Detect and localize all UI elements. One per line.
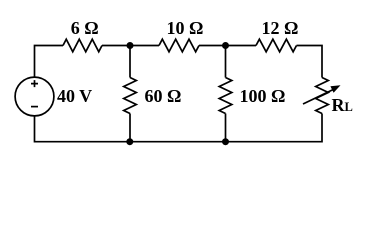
voltage source minus sign: [31, 106, 38, 108]
svg-text:100 Ω: 100 Ω: [240, 86, 286, 106]
node B bottom junction dot: [222, 138, 229, 145]
node A junction dot: [127, 42, 134, 49]
node A bottom junction dot: [126, 138, 133, 145]
wire top rail between 10 ohm and 12 ohm: [199, 45, 256, 47]
resistor 10 ohm: [159, 39, 199, 52]
wire left branch bottom: [35, 116, 130, 142]
variable resistor RL zigzag: [316, 78, 329, 114]
variable resistor RL arrow line: [303, 90, 333, 104]
resistor 12 ohm: [256, 39, 297, 52]
voltage source plus sign: [31, 80, 38, 87]
voltage source 40 V circle: [15, 77, 54, 116]
resistor 6 ohm: [63, 39, 102, 52]
resistor 60 ohm: [124, 78, 137, 114]
wire top rail left segment: [35, 46, 64, 78]
svg-text:40 V: 40 V: [57, 86, 92, 106]
svg-text:10 Ω: 10 Ω: [167, 18, 204, 38]
svg-text:6 Ω: 6 Ω: [71, 18, 99, 38]
wire bottom rail right segment: [226, 114, 323, 142]
wire node A drop: [129, 46, 131, 78]
wire top rail right segment to right branch: [297, 46, 323, 78]
variable resistor RL arrowhead: [330, 85, 340, 92]
svg-text:RL: RL: [332, 95, 353, 115]
wire 100 ohm to bottom rail: [225, 114, 227, 142]
wire 60 ohm to bottom rail: [129, 114, 131, 142]
wire top rail between 6 ohm and 10 ohm: [102, 45, 159, 47]
svg-text:12 Ω: 12 Ω: [262, 18, 299, 38]
wire node B drop: [225, 46, 227, 78]
wire bottom rail between dots: [130, 141, 226, 143]
resistor 100 ohm: [219, 78, 232, 114]
svg-text:60 Ω: 60 Ω: [145, 86, 182, 106]
node B junction dot: [222, 42, 229, 49]
